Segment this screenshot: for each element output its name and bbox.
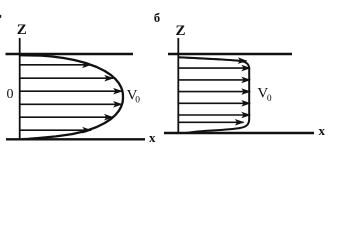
- top plate (left diagram): [6, 53, 134, 55]
- velocity arrow 1 (right diagram): [179, 67, 251, 69]
- bottom edge arrow of profile (right diagram): [179, 121, 244, 123]
- velocity arrow 4 (left diagram): [21, 103, 122, 105]
- svg-text:б: б: [154, 11, 160, 25]
- velocity arrow 5 (left diagram): [21, 116, 113, 118]
- svg-text:0: 0: [135, 96, 140, 106]
- turbulent plug velocity profile boundary (right diagram): [179, 57, 250, 133]
- label a (cut off at left edge): [0, 15, 1, 18]
- velocity arrow 3 (right diagram): [179, 91, 251, 93]
- top edge arrow of profile (right diagram): [179, 57, 247, 61]
- svg-text:0: 0: [267, 94, 272, 104]
- top plate (right diagram): [168, 53, 292, 55]
- bottom plate (right diagram): [164, 132, 314, 134]
- velocity arrow 6 (left diagram): [21, 129, 92, 131]
- svg-text:Z: Z: [176, 23, 186, 39]
- velocity arrow 1 (left diagram): [21, 64, 91, 66]
- bottom plate (left diagram): [6, 138, 145, 140]
- velocity arrow 3 (left diagram): [21, 90, 122, 92]
- svg-text:Z: Z: [17, 22, 27, 38]
- velocity arrow 5 (right diagram): [179, 114, 251, 116]
- z-axis (right diagram): [177, 38, 179, 134]
- z-axis (left diagram): [19, 38, 21, 140]
- parabolic velocity profile curve (left diagram): [20, 55, 123, 139]
- velocity arrow 2 (right diagram): [179, 79, 251, 81]
- velocity arrow 4 (right diagram): [179, 102, 251, 104]
- svg-text:x: x: [319, 123, 326, 138]
- svg-text:0: 0: [7, 87, 14, 102]
- svg-text:x: x: [149, 130, 156, 145]
- velocity arrow 2 (left diagram): [21, 77, 114, 79]
